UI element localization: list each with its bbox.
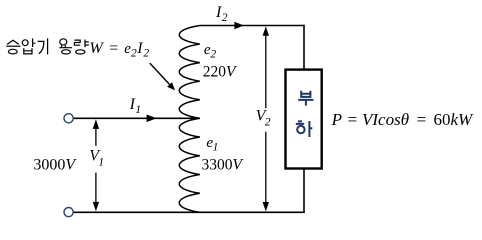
svg-text:I: I bbox=[136, 40, 143, 57]
booster coil winding (10 loops) bbox=[179, 26, 200, 213]
terminal lower left (open circle) bbox=[64, 208, 73, 217]
svg-text:=: = bbox=[348, 110, 358, 129]
terminal upper left (open circle) bbox=[64, 114, 73, 123]
svg-text:VIcosθ: VIcosθ bbox=[362, 110, 409, 129]
svg-text:2: 2 bbox=[143, 47, 149, 59]
svg-text:P: P bbox=[331, 110, 342, 129]
svg-text:3300V: 3300V bbox=[202, 156, 244, 173]
svg-text:1: 1 bbox=[213, 142, 219, 154]
wire load box bottom to bottom rail bbox=[303, 168, 305, 212]
svg-text:W: W bbox=[89, 40, 104, 57]
arrow I2 on top wire bbox=[234, 22, 243, 29]
V2 double arrow line bbox=[265, 34, 267, 203]
svg-text:=: = bbox=[417, 110, 427, 129]
svg-text:3000V: 3000V bbox=[33, 157, 77, 174]
glyph 압 bbox=[22, 40, 28, 46]
wire top (coil top to right corner) bbox=[200, 25, 304, 27]
glyph 하 bbox=[296, 121, 304, 124]
wire middle (left terminal to coil tap) bbox=[74, 117, 200, 119]
glyph 기 bbox=[38, 41, 44, 53]
svg-text:220V: 220V bbox=[203, 64, 237, 81]
glyph 용 bbox=[60, 39, 67, 45]
glyph 부 bbox=[301, 91, 310, 97]
svg-text:2: 2 bbox=[222, 12, 228, 24]
svg-text:60kW: 60kW bbox=[434, 110, 475, 129]
svg-text:2: 2 bbox=[131, 47, 137, 59]
svg-text:1: 1 bbox=[98, 156, 104, 168]
wire right vertical (corner down to load box) bbox=[303, 25, 305, 70]
korean label: 승압기 용량 (booster capacity), drawn as paths bbox=[6, 38, 89, 54]
svg-text:=: = bbox=[109, 40, 118, 57]
arrow I1 on middle wire bbox=[147, 115, 157, 123]
korean load text 부하 (navy), drawn as paths bbox=[296, 91, 314, 137]
junction dot at coil tap bbox=[191, 116, 195, 120]
glyph 승 bbox=[7, 40, 19, 44]
wire bottom rail bbox=[74, 211, 305, 213]
V1 double arrow line bbox=[95, 127, 97, 204]
svg-text:1: 1 bbox=[135, 104, 141, 116]
svg-text:2: 2 bbox=[265, 116, 271, 128]
annotation arrow from formula to coil bbox=[150, 63, 170, 84]
svg-text:2: 2 bbox=[210, 49, 216, 61]
glyph 량 bbox=[74, 40, 80, 45]
load box (rectangle) bbox=[286, 70, 322, 169]
